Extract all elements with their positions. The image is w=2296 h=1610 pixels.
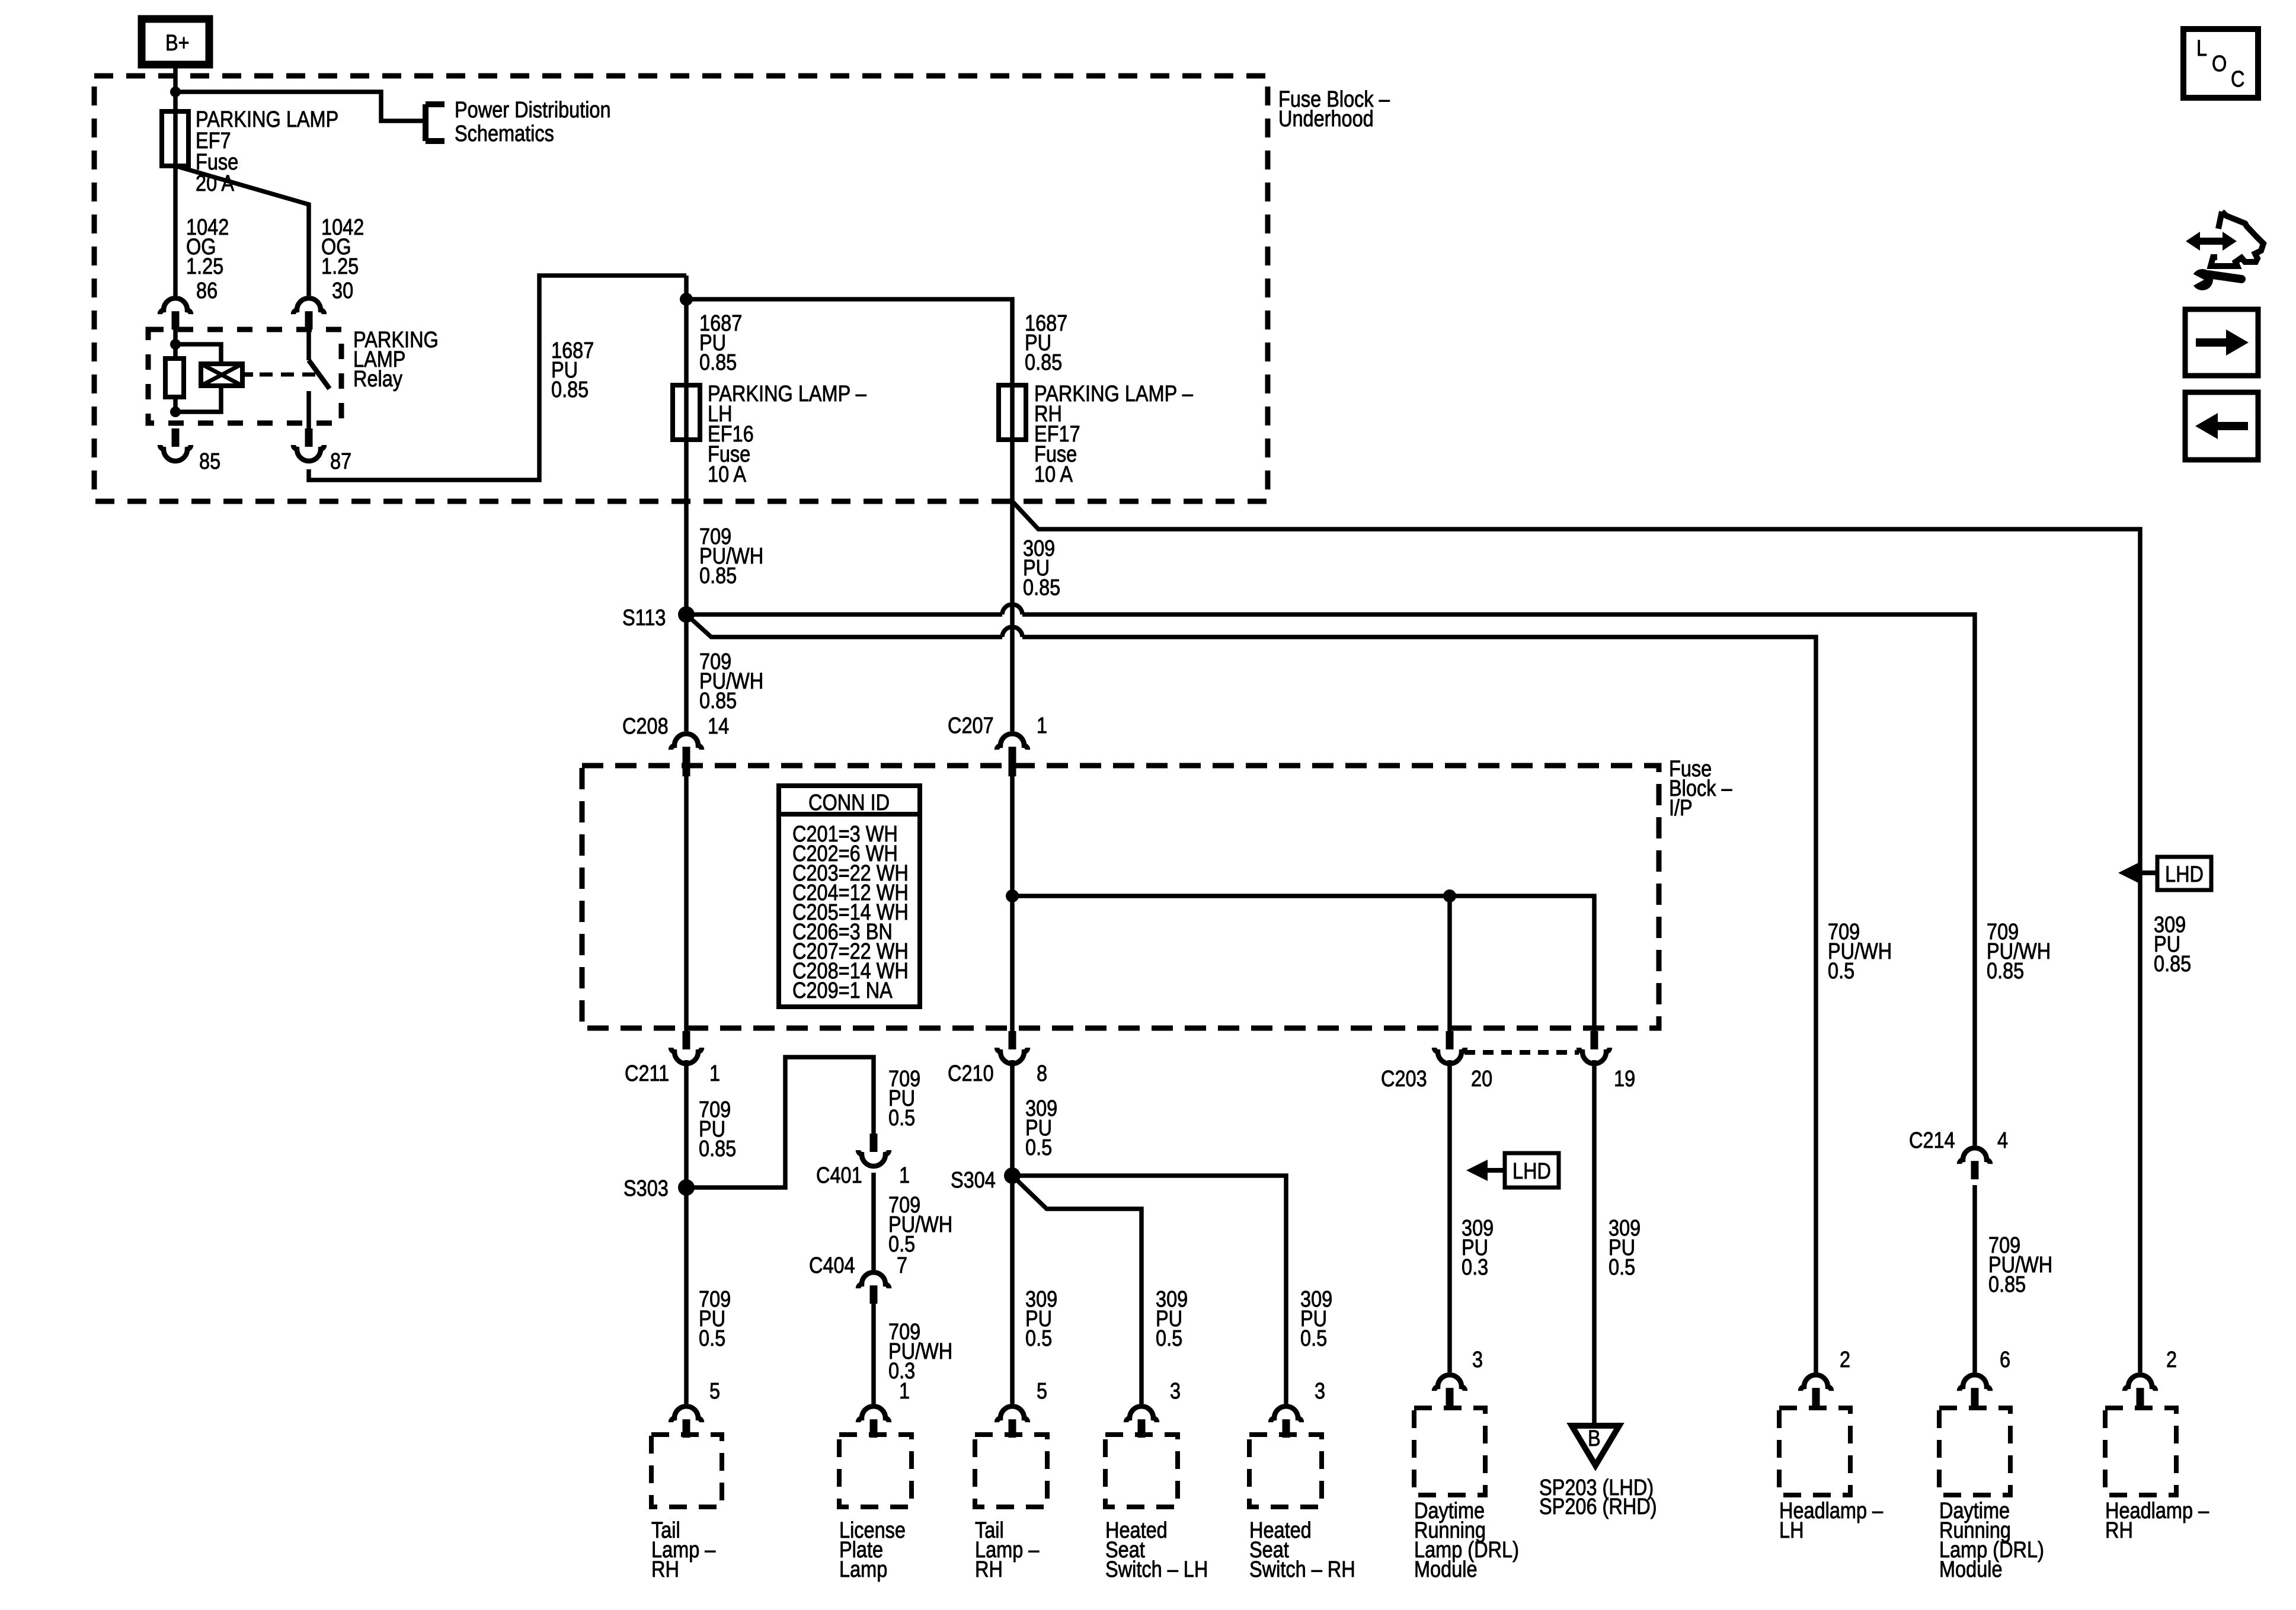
dashed box: Fuse Block - Underhood: [94, 76, 1268, 501]
svg-text:2: 2: [2166, 1347, 2177, 1372]
svg-text:3: 3: [1472, 1347, 1483, 1372]
splice S113: [678, 606, 695, 623]
connector pin 86: [160, 298, 191, 329]
svg-text:6: 6: [2000, 1347, 2010, 1372]
svg-text:C208: C208: [622, 714, 669, 739]
wire I/P to C203 pin 19: [1012, 896, 1594, 1031]
wire B+ through fuse EF7 to relay pin 86: [173, 65, 178, 296]
arrow left: [2195, 413, 2248, 439]
svg-text:85: 85: [199, 449, 220, 474]
wire S304 to heated seat switch RH: [1012, 1176, 1286, 1404]
wire I/P to C203 pin 20: [1447, 896, 1452, 1031]
wire relay coil branch: [173, 344, 178, 415]
wire S113 upper branch left part: [686, 612, 1002, 617]
svg-text:C211: C211: [625, 1061, 669, 1086]
svg-text:C210: C210: [948, 1061, 994, 1086]
bracket Power Distribution Schematics: [426, 104, 445, 141]
node C207 branch: [1006, 889, 1019, 902]
svg-text:1: 1: [709, 1061, 720, 1086]
connector C207 pin 1: [997, 734, 1028, 776]
wire C208 to C211 inside I/P: [684, 774, 689, 1031]
connector component pin 3: [1271, 1406, 1302, 1438]
wire through fuse EF16 down to C208: [684, 276, 689, 731]
connector component pin 6: [1959, 1375, 1990, 1406]
node branch to C203 pin 20: [1443, 889, 1456, 902]
connector component pin 2: [2125, 1375, 2156, 1406]
relay coil resistor: [165, 359, 184, 397]
power symbol B+ box: [142, 19, 209, 65]
wire C207 to C210 inside I/P: [1010, 774, 1015, 1031]
svg-text:4: 4: [1997, 1128, 2008, 1153]
svg-text:5: 5: [1037, 1379, 1047, 1404]
connector component pin 5: [671, 1406, 702, 1438]
svg-text:B: B: [1588, 1426, 1601, 1451]
svg-text:1: 1: [1037, 713, 1047, 738]
wire S113 to headlamp LH: [1022, 637, 1816, 1372]
svg-text:5: 5: [709, 1379, 720, 1404]
dashed box Daytime Running Lamp (DRL) Module: [1414, 1408, 1485, 1495]
LHD arrow shaft upper: [2137, 870, 2157, 875]
dashed box: Fuse Block - I/P: [582, 766, 1659, 1028]
svg-text:C203: C203: [1381, 1067, 1427, 1092]
arrow right: [2196, 329, 2249, 356]
wire C214 to DRL module right: [1972, 1185, 1977, 1372]
wire C401 to C404: [871, 1173, 876, 1270]
dashed box Tail Lamp - RH: [975, 1435, 1047, 1507]
dashed box Headlamp - LH: [1779, 1408, 1850, 1495]
LHD box lower: [1505, 1153, 1559, 1188]
wire EF17 to headlamp RH 309 PU: [1012, 501, 2140, 1372]
relay coil X: [201, 364, 242, 386]
LHD arrow marker upper: [2118, 862, 2140, 884]
node B+ junction: [170, 87, 181, 97]
fuse EF17 10A: [999, 385, 1026, 440]
svg-text:O: O: [2212, 52, 2227, 76]
dashed box Heated Seat Switch - LH: [1105, 1435, 1178, 1507]
svg-text:C207: C207: [948, 713, 994, 738]
svg-text:LHD: LHD: [1512, 1159, 1551, 1184]
svg-text:14: 14: [708, 714, 729, 739]
connector pin 85: [160, 428, 191, 461]
wire S303 to C401: [686, 1057, 874, 1188]
wire S113 to C214: [1022, 614, 1975, 1145]
splice S303: [678, 1179, 695, 1196]
dashed box Heated Seat Switch - RH: [1249, 1435, 1322, 1507]
fuse EF16 10A: [673, 385, 700, 440]
wire through fuse EF17 down to C207: [686, 299, 1012, 731]
relay switch blade: [309, 360, 330, 389]
svg-text:S113: S113: [622, 606, 666, 630]
wire relay 87 to parking lamp fuses: [309, 276, 686, 480]
LHD arrow marker lower: [1466, 1160, 1488, 1181]
connector C203 pin 20: [1434, 1031, 1465, 1064]
icon vehicle with wrench: [2211, 212, 2263, 266]
svg-text:S303: S303: [623, 1176, 669, 1201]
arrow box right: [2185, 309, 2258, 376]
wire hop lower over EF17 wire: [1002, 627, 1022, 637]
wire S113 lower branch left part: [686, 614, 1002, 637]
dashed box PARKING LAMP Relay: [148, 329, 341, 423]
connector C208 pin 14: [671, 734, 702, 776]
wire C404 to license plate lamp: [871, 1304, 876, 1404]
svg-text:7: 7: [897, 1253, 907, 1278]
dashed box Tail Lamp - RH: [651, 1435, 722, 1507]
wire to Power Distribution reference: [175, 92, 424, 121]
svg-text:B+: B+: [165, 31, 190, 56]
svg-text:S304: S304: [951, 1168, 996, 1193]
svg-text:C404: C404: [809, 1253, 855, 1278]
arrow box left: [2185, 392, 2258, 460]
svg-text:C401: C401: [816, 1163, 862, 1188]
wire relay coil parallel branch: [175, 344, 221, 412]
wire C211 to tail lamp RH: [684, 1060, 689, 1404]
svg-text:SP203 (LHD)SP206 (RHD): SP203 (LHD)SP206 (RHD): [1539, 1475, 1657, 1519]
connector C401 pin 1: [858, 1134, 889, 1166]
connector component pin 5: [997, 1406, 1028, 1438]
svg-text:86: 86: [196, 279, 218, 303]
svg-text:L: L: [2196, 36, 2207, 61]
svg-text:30: 30: [332, 279, 353, 303]
CONN ID table header line: [779, 812, 920, 817]
wire switch to pin 87: [306, 391, 311, 428]
wire C203-19 to splice pack ground: [1592, 1060, 1597, 1423]
wire hop upper over EF17 wire: [1002, 604, 1022, 614]
connector pin 30: [293, 298, 324, 329]
dashed box License Plate Lamp: [839, 1435, 912, 1507]
connector C203 pin 19: [1579, 1031, 1610, 1064]
connector C210 pin 8: [997, 1031, 1028, 1064]
svg-text:87: 87: [330, 449, 351, 474]
LHD arrow shaft lower: [1485, 1168, 1505, 1173]
svg-text:2: 2: [1840, 1347, 1850, 1372]
connector C404 pin 7: [858, 1272, 889, 1304]
svg-text:C: C: [2231, 67, 2244, 92]
svg-text:1: 1: [899, 1379, 910, 1404]
splice S304: [1004, 1167, 1021, 1184]
dashed box Headlamp - RH: [2105, 1408, 2176, 1495]
svg-text:C214: C214: [1909, 1128, 1955, 1153]
wire S304 to heated seat switch LH: [1012, 1176, 1141, 1404]
dashed box Daytime Running Lamp (DRL) Module: [1939, 1408, 2010, 1495]
wire C210 to tail lamp RH 2: [1010, 1060, 1015, 1404]
connector component pin 1: [858, 1406, 889, 1438]
CONN ID table box: [779, 786, 920, 1007]
svg-text:CONN ID: CONN ID: [808, 790, 890, 815]
relay coil crossed box: [201, 364, 242, 386]
wire pin30 to switch: [306, 328, 311, 360]
fuse EF7 20A: [162, 111, 188, 166]
svg-text:19: 19: [1614, 1067, 1635, 1092]
connector C214 pin 4: [1959, 1148, 1990, 1179]
LOC box: [2183, 29, 2258, 98]
connector component pin 3: [1126, 1406, 1157, 1438]
dashed link between C203 pins: [1464, 1050, 1579, 1055]
svg-text:8: 8: [1037, 1061, 1047, 1086]
svg-text:3: 3: [1315, 1379, 1325, 1404]
node relay coil top: [170, 339, 181, 350]
svg-text:C201=3 WHC202=6 WHC203=22 WHC2: C201=3 WHC202=6 WHC203=22 WHC204=12 WHC2…: [792, 822, 909, 1003]
node relay coil bottom: [170, 406, 181, 417]
svg-text:1: 1: [899, 1163, 910, 1188]
svg-text:3: 3: [1170, 1379, 1181, 1404]
wire fuse EF7 to relay pin 30: [175, 166, 309, 296]
wire pin86 into relay: [173, 328, 178, 340]
svg-text:Fuse Block –Underhood: Fuse Block –Underhood: [1278, 87, 1390, 132]
connector component pin 3: [1434, 1375, 1465, 1406]
connector pin 87: [293, 428, 324, 461]
connector C211 pin 1: [671, 1031, 702, 1064]
relay coil actuator lead: [242, 372, 253, 377]
node fuse feed split: [680, 293, 693, 306]
svg-text:LHD: LHD: [2165, 862, 2204, 887]
svg-text:20: 20: [1471, 1067, 1492, 1092]
wire C203-20 to DRL module: [1447, 1060, 1452, 1372]
connector component pin 2: [1801, 1375, 1831, 1406]
LHD box upper: [2157, 857, 2211, 890]
relay actuator dashed link: [260, 373, 323, 377]
ground symbol B triangle SP203/SP206: [1572, 1426, 1619, 1465]
